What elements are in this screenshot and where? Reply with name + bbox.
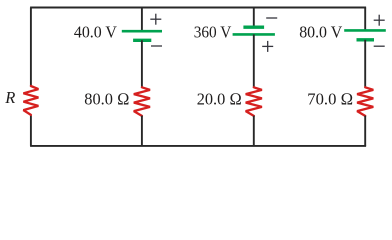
svg-text:80.0 Ω: 80.0 Ω: [84, 89, 129, 108]
minus sign battery U2: [266, 17, 277, 19]
wire branch2 upper segment: [253, 8, 255, 28]
resistor R2 20.0 ohm: [246, 87, 262, 116]
resistor R1 80.0 ohm: [134, 87, 150, 116]
svg-text:360 V: 360 V: [194, 22, 232, 41]
wire branch2 middle segment: [253, 34, 255, 87]
svg-text:80.0 V: 80.0 V: [299, 22, 342, 41]
wire branch2 lower segment: [253, 116, 255, 146]
battery U2 long plate (+) below: [233, 33, 275, 36]
wire left lower segment: [30, 115, 32, 146]
resistor R3 70.0 ohm: [357, 87, 373, 116]
wire right middle segment: [364, 40, 366, 88]
wire branch1 lower segment: [141, 116, 143, 146]
wire left upper segment: [30, 8, 32, 87]
plus sign battery U1: [150, 14, 161, 25]
wire right upper segment: [364, 8, 366, 31]
battery U1 long plate (+): [122, 30, 162, 33]
battery U3 short plate (-): [357, 38, 375, 41]
battery U3 long plate (+): [344, 29, 386, 32]
resistor R: [23, 86, 38, 115]
bottom wire: [30, 145, 366, 147]
minus sign battery U3: [374, 45, 385, 47]
wire branch1 upper segment: [141, 8, 143, 31]
plus sign battery U3: [374, 15, 385, 26]
wire right lower segment: [364, 116, 366, 146]
svg-text:20.0 Ω: 20.0 Ω: [197, 89, 242, 108]
battery U2 short plate (-) on top: [243, 26, 264, 29]
svg-text:70.0 Ω: 70.0 Ω: [307, 89, 353, 108]
battery U1 short plate (-): [133, 39, 151, 42]
svg-text:R: R: [4, 88, 15, 107]
plus sign battery U2: [262, 41, 273, 52]
svg-text:40.0 V: 40.0 V: [74, 23, 117, 42]
wire branch1 middle segment: [141, 40, 143, 87]
top wire: [30, 7, 366, 9]
minus sign battery U1: [151, 45, 162, 47]
